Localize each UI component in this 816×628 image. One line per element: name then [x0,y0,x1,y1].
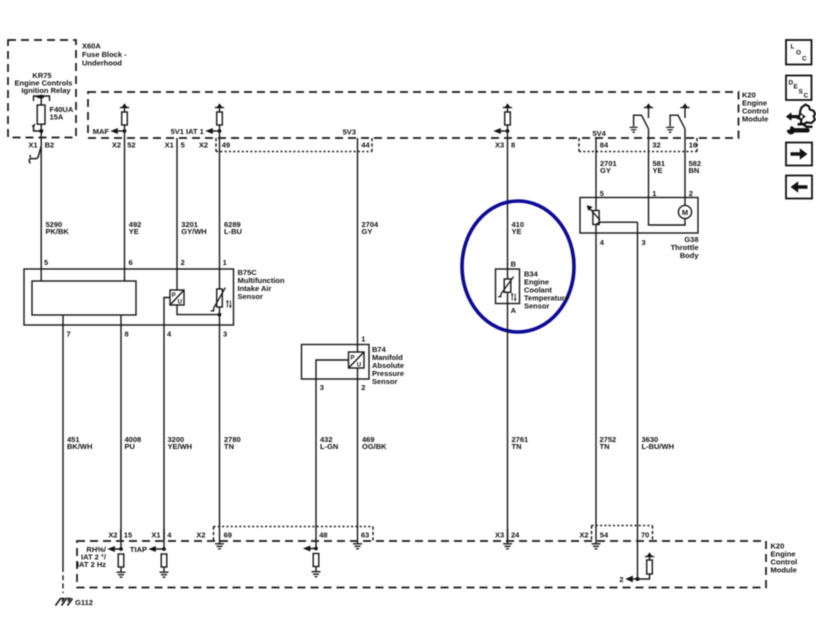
ground at pin 15 [120,567,122,572]
pin X2 49 labels [199,140,230,149]
fuse block X60A dashed box [8,40,76,138]
G38 pin labels 5 1 2 4 3 [600,189,693,247]
tool icon double arrow [786,112,806,120]
tool icon wrench [796,128,808,132]
wire 410 YE (ECM X3-8 to B34 pin B) [507,125,509,279]
svg-text:16: 16 [689,140,697,149]
svg-text:Module: Module [742,115,768,124]
wire G38 pin 1 to motor [649,198,686,226]
svg-text:X2: X2 [579,530,588,539]
wire labels lower row [67,435,674,451]
ground at pin 48 [315,567,317,572]
svg-text:5: 5 [600,189,604,198]
power symbol B+ at pin 70 resistor [645,557,654,560]
svg-text:4: 4 [167,329,172,338]
svg-text:YE/WH: YE/WH [168,442,193,451]
svg-text:B: B [511,260,517,269]
svg-text:B2: B2 [45,140,55,149]
svg-text:3: 3 [223,329,227,338]
svg-text:L-BU: L-BU [224,227,242,236]
pin separator X2-15 [120,529,122,541]
resistor at pin 70 [647,560,653,574]
svg-text:6: 6 [129,258,133,267]
wire 469 OG/BK (B74 pin 2 to ECM 63) [357,368,359,541]
sensor B74 box [302,345,370,380]
wire 3201 GY/WH (ECM X1-5 to B75C pin 2) [176,138,178,290]
node MAF arrow [117,130,125,132]
svg-text:TN: TN [224,442,234,451]
svg-text:X2: X2 [112,140,121,149]
svg-text:YE: YE [512,227,522,236]
svg-text:Sensor: Sensor [524,302,550,311]
svg-text:TN: TN [600,442,610,451]
wire fuse to B75C pin 5 (5290 PK/BK) [40,124,42,281]
svg-text:U: U [178,299,182,305]
thermistor variation arrows [512,294,515,301]
svg-text:C: C [802,56,807,63]
svg-text:7: 7 [67,329,71,338]
svg-text:4: 4 [167,530,172,539]
svg-text:P: P [172,293,176,299]
svg-text:BN: BN [689,166,700,175]
svg-text:Sensor: Sensor [372,377,398,386]
wire 2704 GY (ECM 44 to B74 pin 1) [357,138,359,352]
wire 2752 TN (TPS to ECM X2-54) [595,225,597,542]
label B75C Multifunction Intake Air Sensor [44,258,285,339]
node 5V1 IAT 1 arrow [212,130,220,132]
svg-text:1: 1 [652,189,656,198]
B74 pressure sensor symbol P/U [349,352,365,368]
connector dotted box pins 54-70 [592,526,653,542]
label F40UA 15A [50,105,74,122]
svg-text:YE: YE [129,227,139,236]
svg-text:G112: G112 [75,598,93,607]
throttle body G38 box [580,198,698,234]
svg-text:X2: X2 [108,530,117,539]
nav icon adjust/tools [798,105,816,127]
sensor B34 box [496,269,520,304]
svg-text:TN: TN [512,442,522,451]
wire P/U bottom to thermistor node [177,305,220,315]
junction at X1-B2 [39,129,43,133]
ECM driver switch for pin 32 [644,108,653,118]
motor M in G38 [678,205,691,218]
svg-text:5: 5 [44,258,48,267]
svg-text:5V1 IAT 1: 5V1 IAT 1 [171,127,204,136]
ECM K20 top dashed box [88,92,739,138]
pin X2 54 labels [579,530,609,539]
svg-text:2: 2 [181,258,185,267]
svg-text:2: 2 [361,383,365,392]
resistor at pin 15 [118,554,124,567]
pin X1 B2 labels [28,140,54,149]
svg-text:PK/BK: PK/BK [46,227,70,236]
svg-text:3: 3 [642,238,646,247]
nav box back arrow [786,176,812,199]
node 2 arrow at pin 70 [632,578,638,580]
wire pin 70 to pull-up resistor [638,574,650,579]
connector dotted box pins 69-48-63 [214,527,374,542]
wire P/U to pin 4 [164,298,170,542]
B75C pressure sensor symbol P/U [170,290,184,305]
svg-text:Underhood: Underhood [82,59,122,68]
junction node at thermistor [218,313,222,317]
pin X1 5 labels [165,140,185,149]
wire 581 YE (ECM 32 to G38 pin 1) [648,129,650,198]
svg-text:5V4: 5V4 [593,129,607,138]
svg-text:32: 32 [652,140,660,149]
ground at pin 63 [357,541,359,544]
svg-text:O: O [796,50,801,57]
pin X2 52 labels [112,140,136,149]
power symbol B+ above MAF pull-up [120,108,129,112]
B34 pin labels B A [511,260,569,315]
wire label 5290 PK/BK [46,159,702,236]
label RH% IAT 2 [77,545,107,569]
svg-text:Module: Module [771,566,797,575]
svg-text:52: 52 [127,140,135,149]
svg-text:OG/BK: OG/BK [362,442,387,451]
svg-text:69: 69 [224,530,232,539]
svg-text:U: U [357,362,361,368]
svg-text:5: 5 [181,140,185,149]
nav box forward arrow [786,143,812,166]
ground at pin 24 [507,541,509,544]
pin separator X3-24 [507,529,509,541]
wire relay to fuse [40,99,42,106]
fuse F40UA [37,105,45,124]
svg-text:84: 84 [600,140,609,149]
label B74 Manifold Absolute Pressure Sensor [320,334,404,392]
ECM K20 bottom dashed box [77,541,766,588]
thermistor variation arrows [227,301,230,308]
relay KR75 label [15,71,73,95]
pin X2 15 labels [108,530,132,539]
svg-text:24: 24 [511,530,520,539]
pin X2 69 labels [196,530,232,539]
pin X1 4 labels [151,530,172,539]
svg-text:8: 8 [125,329,129,338]
wire pin 8 down (4008 PU) [120,315,122,541]
wire TPS wiper to pin 3 (3630 L-BU/WH to ECM 70) [596,222,637,224]
svg-text:3: 3 [320,383,324,392]
svg-text:GY: GY [600,166,611,175]
label X60A Fuse Block Underhood [82,42,127,68]
node arrow at pin 48 [310,541,316,549]
svg-text:M: M [682,208,688,217]
svg-text:Ignition Relay: Ignition Relay [21,86,71,95]
svg-text:TIAP: TIAP [130,545,147,554]
sensor B75C outer box [24,269,234,325]
nav back arrow glyph [791,181,808,192]
G38 TPS potentiometer [593,211,599,225]
svg-text:2: 2 [619,575,623,584]
ground (driver 32) [630,127,638,132]
svg-text:63: 63 [361,530,369,539]
svg-text:15A: 15A [50,113,64,122]
connector dotted box pins 84-32-16 [579,138,697,152]
svg-text:15: 15 [124,530,132,539]
svg-text:X1: X1 [165,140,174,149]
svg-text:MAF: MAF [93,127,110,136]
svg-text:L: L [791,44,795,51]
ECM driver switch for pin 16 [680,108,689,118]
resistor 5V1 pull-up [217,112,223,125]
svg-text:X3: X3 [495,140,504,149]
pin separator X1-4 [163,529,165,541]
svg-text:X3: X3 [495,530,504,539]
svg-text:PU: PU [125,442,135,451]
B75C IAT thermistor [217,289,223,307]
wire G38 pin 2 to motor [684,198,686,206]
label K20 Engine Control Module (bottom) [771,542,798,575]
nav forward arrow glyph [791,148,808,159]
svg-text:X2: X2 [199,140,208,149]
svg-text:Body: Body [680,251,700,260]
ground at pin 69 [219,541,221,544]
svg-text:L-GN: L-GN [320,442,338,451]
svg-text:X1: X1 [28,140,37,149]
svg-text:49: 49 [222,140,230,149]
power symbol B+ above ECT pull-up [503,108,512,112]
node ECT signal arrow [500,130,508,132]
svg-text:Sensor: Sensor [238,292,264,301]
resistor at pin 4 [161,554,167,567]
svg-text:IAT 2 Hz: IAT 2 Hz [77,560,106,569]
pin X3 8 labels [495,140,515,149]
wire B74 P/U to pin 3 (432 L-GN to ECM 48) [316,360,349,541]
resistor MAF pull-up [122,112,128,125]
svg-text:44: 44 [361,140,370,149]
connector terminal lower hook X1-B2 [29,147,41,164]
label K20 Engine Control Module (top) [742,91,769,124]
B34 ECT thermistor [504,279,511,292]
svg-text:A: A [511,306,517,315]
wire 582 BN (ECM 16 to G38 pin 2) [684,129,686,198]
svg-text:C: C [804,93,809,100]
nav box DESC [786,76,812,101]
ground (driver 16) [666,127,674,132]
svg-text:L-BU/WH: L-BU/WH [642,442,675,451]
wire 492 YE (ECM X2-52 to B75C pin 6) [124,125,126,281]
nav box LOC [786,40,812,199]
ground at pin 4 [163,567,165,572]
svg-text:GY: GY [362,227,373,236]
svg-text:8: 8 [511,140,515,149]
wire pin 7 to G112 (451 BK/WH) [62,315,64,567]
svg-text:X1: X1 [151,530,160,539]
svg-text:1: 1 [361,334,365,343]
wire 6289 L-BU (ECM X2-49 to B75C pin 1) [219,125,221,289]
wire 2701 GY (ECM 84 to G38 pin 5) [595,138,597,211]
ground at pin 54 [595,541,597,544]
svg-text:1: 1 [223,258,227,267]
svg-text:2: 2 [689,189,693,198]
resistor at pin 48 [313,554,319,567]
svg-text:BK/WH: BK/WH [67,442,92,451]
wire 2761 TN (B34 pin A to ECM X3-24) [507,292,509,541]
power symbol B+ above 5V1 pull-up [215,108,224,112]
resistor ECT pull-up [505,112,511,125]
svg-text:48: 48 [319,530,327,539]
relay KR75 contact [34,96,50,101]
wire 2780 TN continues (B75C pin 3 to ECM X2-69) [219,307,221,541]
svg-text:5V3: 5V3 [343,127,356,136]
B75C inner element box [32,281,136,315]
svg-text:X2: X2 [196,530,205,539]
label G38 Throttle Body [671,235,700,260]
svg-text:P: P [351,355,355,361]
pin X3 24 labels [495,530,520,539]
node TIAP arrow at pin 4 [156,541,165,549]
svg-text:GY/WH: GY/WH [181,227,206,236]
ground G112 chassis symbol [56,599,73,606]
highlight ellipse (blue) [462,201,574,332]
connector terminal upper hook X1-B2 [32,126,41,131]
svg-text:70: 70 [641,530,649,539]
svg-text:4: 4 [600,238,605,247]
node RH% arrow at pin 15 [115,541,122,549]
svg-text:54: 54 [600,530,609,539]
connector dotted box pins 49-44 [216,138,372,152]
svg-text:YE: YE [653,166,663,175]
